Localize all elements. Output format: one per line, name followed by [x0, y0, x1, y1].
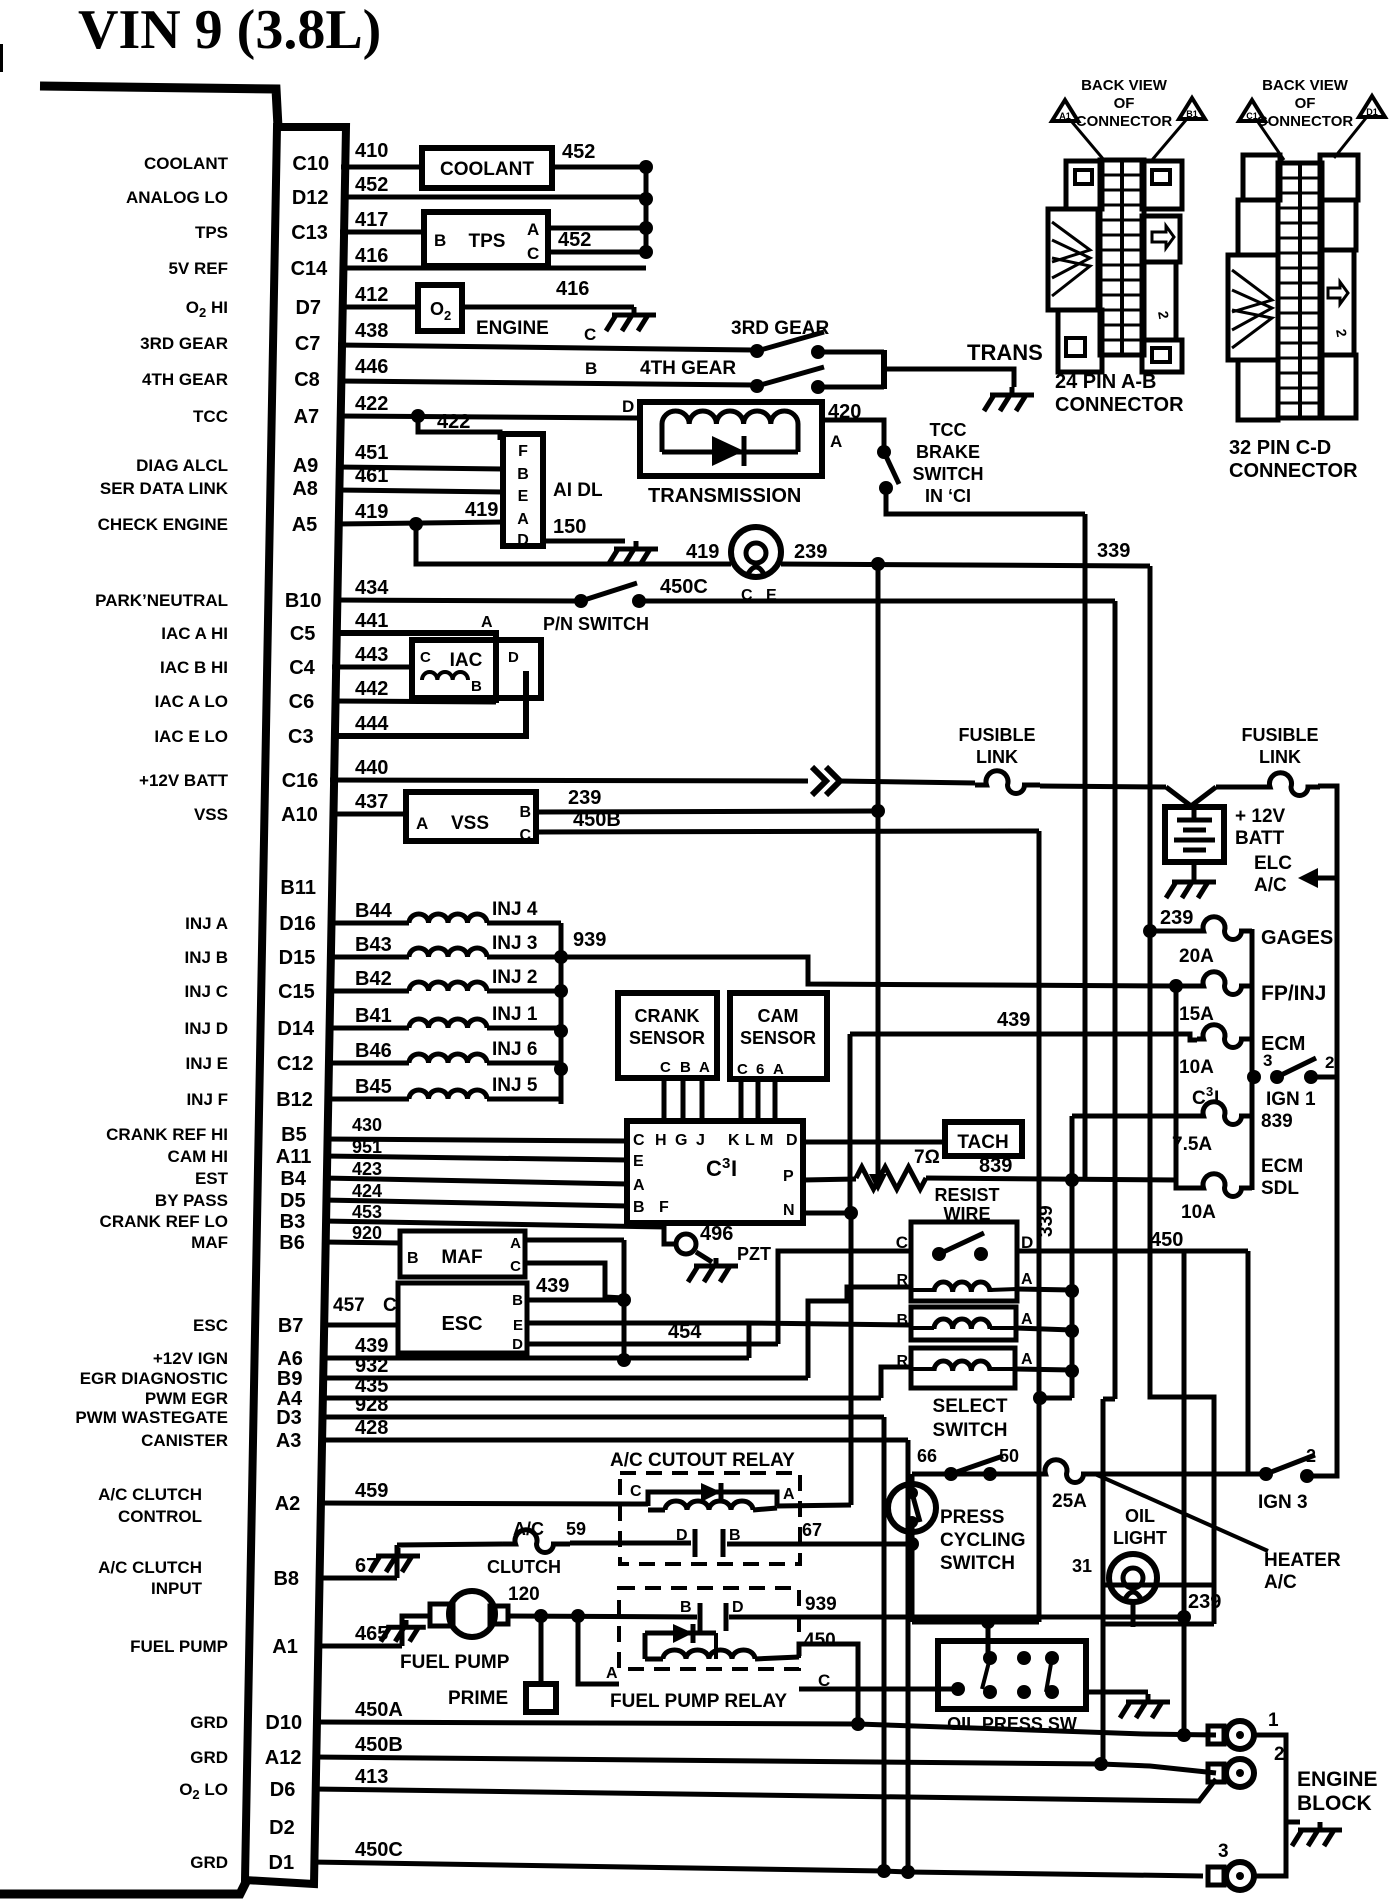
svg-text:450B: 450B: [355, 1734, 403, 1756]
svg-text:BLOCK: BLOCK: [1297, 1792, 1372, 1815]
svg-text:P/N SWITCH: P/N SWITCH: [543, 614, 649, 634]
svg-text:3: 3: [1263, 1051, 1272, 1070]
svg-text:50: 50: [999, 1446, 1019, 1466]
svg-text:339: 339: [1097, 540, 1130, 562]
svg-text:451: 451: [355, 442, 388, 464]
stray mark left edge: [0, 44, 3, 72]
svg-text:C10: C10: [292, 153, 329, 175]
relay3 coil box: [911, 1348, 1015, 1388]
svg-text:439: 439: [355, 1335, 388, 1357]
svg-text:BACK VIEW: BACK VIEW: [1262, 77, 1349, 94]
svg-text:416: 416: [355, 245, 388, 267]
svg-text:31: 31: [1072, 1556, 1092, 1576]
svg-text:B44: B44: [355, 900, 393, 922]
svg-text:D6: D6: [270, 1779, 296, 1801]
svg-text:428: 428: [355, 1417, 388, 1439]
injector coil INJ 6: [325, 1061, 409, 1066]
svg-text:TCC: TCC: [930, 420, 967, 440]
svg-text:BATT: BATT: [1235, 828, 1285, 849]
svg-text:B12: B12: [276, 1089, 313, 1111]
svg-text:454: 454: [668, 1321, 702, 1343]
wire 31 vertical: [1101, 1399, 1106, 1766]
svg-text:D: D: [732, 1599, 744, 1616]
node 120 prime: [534, 1609, 548, 1623]
node 67 press switch: [905, 1537, 919, 1551]
svg-text:B: B: [512, 1292, 523, 1309]
svg-text:D14: D14: [277, 1018, 315, 1040]
svg-text:10A: 10A: [1181, 1202, 1216, 1223]
wire B3 453 to F: [323, 1221, 664, 1227]
AC cutout relay dashed box: [620, 1473, 800, 1564]
wire oil light to 450 riser: [1103, 1622, 1214, 1627]
ground TRANS: [1010, 387, 1015, 395]
wire select riser: [910, 1474, 915, 1493]
wire 928 down: [882, 1417, 887, 1872]
wire bulb 239: [781, 564, 1150, 566]
relay contact C-D: [932, 1247, 946, 1261]
wire C14 416: [340, 266, 646, 271]
wire FP relay C to oil sw: [799, 1687, 958, 1692]
svg-text:R: R: [896, 1272, 908, 1289]
svg-text:CONNECTOR: CONNECTOR: [1257, 113, 1354, 130]
wire 450 riser: [1182, 1251, 1187, 1735]
wire select feed: [1040, 1396, 1072, 1401]
svg-text:66: 66: [917, 1446, 937, 1466]
svg-text:E: E: [633, 1153, 644, 1170]
C3I box: [627, 1121, 803, 1223]
svg-text:B: B: [407, 1250, 419, 1267]
ground ENGINE BLOCK: [1318, 1822, 1323, 1830]
node 939 riser bottom: [1177, 1610, 1191, 1624]
FP relay coil: [663, 1650, 755, 1659]
svg-text:B3: B3: [280, 1211, 306, 1233]
fuse bus vertical: [1250, 929, 1255, 1190]
engine block bracket: [1254, 1735, 1286, 1876]
knock sensor PZT: [664, 1227, 674, 1244]
wire D1 450C: [311, 1862, 1203, 1876]
svg-text:GRD: GRD: [190, 1748, 228, 1767]
svg-text:K: K: [728, 1132, 740, 1149]
svg-text:D1: D1: [269, 1852, 295, 1874]
svg-text:PWM WASTEGATE: PWM WASTEGATE: [75, 1408, 228, 1427]
svg-text:PWM EGR: PWM EGR: [145, 1389, 228, 1408]
svg-text:A: A: [481, 614, 493, 631]
fuse 20A GAGES: [1150, 929, 1197, 934]
svg-text:LINK: LINK: [1259, 747, 1301, 767]
wire 419 down to bulb: [416, 524, 731, 564]
connector 24-pin fan wires: [1052, 222, 1090, 262]
node 452-D12: [639, 192, 653, 206]
wire C8 446: [338, 381, 753, 385]
svg-text:ANALOG LO: ANALOG LO: [126, 188, 228, 207]
ECM outer bottom line: [0, 1880, 247, 1894]
wire MAF C: [525, 1263, 624, 1298]
svg-text:LINK: LINK: [976, 747, 1018, 767]
wire to TRANS ground: [884, 369, 1014, 387]
battery ground: [1192, 862, 1197, 874]
svg-text:B1: B1: [1186, 109, 1198, 119]
svg-text:430: 430: [352, 1115, 382, 1135]
svg-text:COOLANT: COOLANT: [440, 159, 534, 180]
svg-text:15A: 15A: [1179, 1004, 1214, 1025]
wire 439 to ECM fuse: [850, 1034, 1197, 1040]
svg-text:3: 3: [1218, 1841, 1229, 1862]
svg-text:C: C: [584, 325, 596, 344]
svg-text:B: B: [471, 678, 482, 695]
svg-text:IAC B HI: IAC B HI: [160, 658, 228, 677]
svg-text:B46: B46: [355, 1040, 392, 1062]
wire IGN3 right: [1307, 1077, 1337, 1476]
svg-text:TPS: TPS: [195, 223, 228, 242]
svg-text:CRANK: CRANK: [635, 1006, 700, 1026]
AC relay coil: [665, 1501, 753, 1510]
svg-text:2: 2: [1325, 1053, 1334, 1072]
ground oil press: [1146, 1694, 1151, 1702]
svg-text:3RD GEAR: 3RD GEAR: [140, 334, 228, 353]
TPS box: [424, 212, 548, 266]
svg-text:59: 59: [566, 1519, 586, 1539]
ground PZT: [696, 1252, 712, 1262]
wire oil light 31: [1103, 1583, 1214, 1588]
svg-text:B7: B7: [278, 1315, 304, 1337]
svg-text:C3: C3: [288, 726, 314, 748]
IAC box: [412, 640, 541, 698]
svg-text:A3: A3: [276, 1430, 302, 1452]
wire 939 riser: [1174, 986, 1179, 1181]
wire C5 441 to IAC A: [333, 633, 496, 703]
svg-text:INJ 3: INJ 3: [492, 933, 537, 954]
svg-text:BACK VIEW: BACK VIEW: [1081, 77, 1168, 94]
transmission diode line: [660, 424, 665, 452]
wire C13 417: [340, 230, 424, 235]
svg-text:SWITCH: SWITCH: [913, 464, 984, 484]
svg-text:+12V BATT: +12V BATT: [139, 771, 229, 790]
svg-text:C: C: [630, 1483, 642, 1500]
fuel pump relay dashed box: [619, 1588, 799, 1669]
svg-text:32 PIN C-D: 32 PIN C-D: [1229, 437, 1331, 459]
svg-text:437: 437: [355, 791, 388, 813]
node 120 relay A: [571, 1609, 585, 1623]
node injector bus: [554, 950, 568, 964]
svg-text:EST: EST: [195, 1169, 229, 1188]
terminal 2: [1208, 1764, 1224, 1782]
ECM pin column box: [245, 127, 346, 1884]
svg-text:SDL: SDL: [1261, 1178, 1299, 1199]
svg-text:450B: 450B: [573, 809, 621, 831]
svg-text:B: B: [680, 1599, 692, 1616]
wire relay2 A: [1016, 1328, 1072, 1330]
svg-text:+12V IGN: +12V IGN: [153, 1349, 228, 1368]
svg-text:439: 439: [997, 1009, 1030, 1031]
svg-text:RESIST: RESIST: [934, 1185, 999, 1205]
svg-text:INJ B: INJ B: [185, 948, 228, 967]
svg-text:A: A: [773, 1061, 784, 1078]
svg-text:H: H: [655, 1132, 667, 1149]
svg-text:457: 457: [333, 1295, 365, 1316]
node 31 bottom: [1094, 1757, 1108, 1771]
svg-text:IGN 1: IGN 1: [1266, 1089, 1316, 1110]
svg-text:412: 412: [355, 284, 388, 306]
svg-text:1: 1: [1268, 1710, 1279, 1731]
wire 3rd to bracket: [822, 350, 884, 355]
wire B6 920: [322, 1242, 400, 1243]
arrow ELC feed: [1312, 876, 1337, 881]
FP relay diode: [645, 1631, 716, 1636]
svg-text:496: 496: [700, 1223, 733, 1245]
wire D6 413: [313, 1779, 1216, 1801]
svg-text:J: J: [696, 1132, 705, 1149]
svg-text:C6: C6: [289, 691, 315, 713]
svg-text:O2 LO: O2 LO: [179, 1780, 228, 1802]
svg-text:LIGHT: LIGHT: [1113, 1528, 1167, 1548]
svg-text:B9: B9: [277, 1368, 303, 1390]
svg-text:GAGES: GAGES: [1261, 927, 1333, 949]
svg-text:ESC: ESC: [441, 1313, 482, 1335]
svg-text:ENGINE: ENGINE: [476, 318, 549, 339]
fuse 25A: [1038, 1460, 1095, 1483]
pointer HEATER A/C: [1095, 1474, 1268, 1551]
svg-text:444: 444: [355, 713, 389, 735]
wire 120: [508, 1616, 697, 1617]
wire A5 419 to AIDL A: [335, 522, 503, 524]
wire IGN1 to right bus: [1311, 1075, 1337, 1080]
svg-text:438: 438: [355, 320, 388, 342]
svg-text:419: 419: [465, 499, 498, 521]
wire select switch row: [912, 1472, 1038, 1477]
switch IGN1: [1247, 1070, 1261, 1084]
svg-text:PARK’NEUTRAL: PARK’NEUTRAL: [95, 591, 228, 610]
svg-text:B: B: [729, 1527, 741, 1544]
fusible link left: [975, 771, 1040, 794]
svg-text:ELC: ELC: [1254, 853, 1292, 874]
switch select 66-50: [944, 1467, 958, 1481]
wire D7 412: [339, 305, 418, 310]
gear bracket vertical: [881, 350, 887, 389]
svg-text:2: 2: [444, 308, 451, 323]
svg-text:A5: A5: [292, 514, 318, 536]
wire C3I D to TACH: [803, 1140, 945, 1145]
svg-text:A1: A1: [1059, 111, 1071, 121]
svg-text:C16: C16: [282, 770, 319, 792]
svg-text:A6: A6: [277, 1348, 303, 1370]
svg-text:B41: B41: [355, 1005, 392, 1027]
svg-text:IAC: IAC: [450, 650, 483, 671]
node 839-339: [1065, 1173, 1079, 1187]
svg-text:C13: C13: [291, 222, 328, 244]
svg-text:D: D: [508, 649, 519, 666]
node 452 junction: [639, 160, 653, 174]
injector bus vertical: [559, 923, 564, 1104]
svg-text:D: D: [622, 397, 634, 416]
svg-text:IAC A LO: IAC A LO: [155, 692, 228, 711]
svg-text:150: 150: [553, 516, 586, 538]
node 450 riser bottom: [1177, 1728, 1191, 1742]
svg-text:D10: D10: [265, 1712, 302, 1734]
svg-text:CRANK REF LO: CRANK REF LO: [100, 1212, 228, 1231]
svg-text:OF: OF: [1114, 95, 1135, 112]
svg-text:A/C CLUTCH: A/C CLUTCH: [98, 1485, 202, 1504]
svg-text:439: 439: [536, 1275, 569, 1297]
fuse AC 59: [397, 1544, 503, 1545]
svg-text:459: 459: [355, 1480, 388, 1502]
svg-text:120: 120: [508, 1584, 540, 1605]
wire ESC E: [527, 1321, 749, 1326]
fuse 15A FP/INJ: [1176, 984, 1197, 989]
svg-text:B11: B11: [280, 877, 316, 899]
svg-text:TRANS: TRANS: [967, 340, 1043, 365]
svg-text:C: C: [660, 1059, 671, 1076]
svg-text:A12: A12: [265, 1747, 302, 1769]
wire ESC B: [527, 1298, 624, 1303]
ECM outer top line: [40, 86, 278, 127]
triangle B1: [1179, 98, 1205, 119]
svg-text:339: 339: [1036, 1205, 1057, 1237]
oil press switch pins: [951, 1682, 965, 1696]
relay TCC contact+coil box: [911, 1222, 1017, 1301]
svg-text:10A: 10A: [1179, 1057, 1214, 1078]
svg-text:A2: A2: [275, 1493, 301, 1515]
svg-text:D: D: [512, 1336, 523, 1353]
node 428 gnd: [901, 1865, 915, 1879]
svg-text:B6: B6: [279, 1232, 305, 1254]
svg-text:239: 239: [1188, 1591, 1221, 1613]
svg-text:A: A: [517, 511, 529, 528]
node 422 branch: [411, 409, 425, 423]
wire 339 vertical: [1070, 1116, 1075, 1398]
svg-text:IGN 3: IGN 3: [1258, 1492, 1308, 1513]
svg-text:B: B: [585, 359, 597, 378]
wire 465 riser: [402, 1616, 430, 1646]
svg-text:939: 939: [573, 929, 606, 951]
wire 454 staircase: [778, 1251, 911, 1344]
svg-text:D3: D3: [276, 1407, 302, 1429]
svg-text:B4: B4: [280, 1168, 306, 1190]
wire C7 438: [338, 345, 753, 350]
svg-text:I: I: [731, 1156, 737, 1181]
svg-text:D12: D12: [292, 187, 329, 209]
svg-text:443: 443: [355, 644, 388, 666]
svg-text:D7: D7: [295, 297, 321, 319]
svg-text:FUEL PUMP: FUEL PUMP: [130, 1637, 228, 1656]
svg-text:VIN 9 (3.8L): VIN 9 (3.8L): [78, 0, 381, 61]
svg-text:20A: 20A: [1179, 946, 1214, 967]
VSS box: [406, 792, 536, 841]
node 928 gnd: [877, 1864, 891, 1878]
wire A9 451: [336, 467, 503, 469]
svg-text:CLUTCH: CLUTCH: [487, 1557, 561, 1577]
svg-text:424: 424: [352, 1181, 382, 1201]
svg-text:A: A: [699, 1059, 710, 1076]
svg-text:TRANSMISSION: TRANSMISSION: [648, 485, 801, 507]
wire D12 452: [341, 195, 646, 200]
svg-text:939: 939: [805, 1594, 837, 1615]
wire 450A: [314, 1722, 1216, 1735]
svg-text:SENSOR: SENSOR: [740, 1028, 816, 1048]
svg-text:C14: C14: [291, 258, 329, 280]
svg-text:ECM: ECM: [1261, 1156, 1303, 1177]
oil press switch box: [938, 1641, 1086, 1709]
wire 239 down to VSS: [876, 564, 881, 810]
svg-text:D: D: [786, 1132, 798, 1149]
svg-text:C: C: [519, 827, 531, 844]
injector coil INJ 5: [325, 1097, 409, 1102]
transmission box: [640, 402, 822, 476]
wire brake sw to vertical: [886, 488, 1085, 514]
triangle C1: [1239, 100, 1265, 121]
svg-text:A: A: [830, 432, 842, 451]
wire N to AC relay A: [849, 1213, 854, 1505]
svg-text:IAC A HI: IAC A HI: [161, 624, 228, 643]
wire link to right bus: [1318, 786, 1337, 1077]
svg-text:L: L: [745, 1132, 755, 1149]
svg-text:B10: B10: [285, 590, 322, 612]
wire C6 442: [332, 701, 496, 702]
node 239 fuse feed: [1143, 924, 1157, 938]
svg-text:E: E: [518, 488, 529, 505]
wire relay1 A: [1017, 1289, 1072, 1290]
wire 439 riser: [848, 1034, 853, 1213]
wire 450C: [645, 599, 1115, 604]
wire 440 cont: [838, 781, 975, 783]
switch TCC brake: [877, 445, 891, 459]
svg-text:+ 12V: + 12V: [1235, 806, 1286, 827]
bulb OIL LIGHT: [1109, 1554, 1157, 1602]
wire 932 staircase: [808, 1287, 911, 1378]
svg-text:D1: D1: [1366, 107, 1378, 117]
svg-text:CONNECTOR: CONNECTOR: [1229, 460, 1358, 482]
wire B7 457: [321, 1323, 398, 1328]
svg-text:I: I: [1214, 1088, 1219, 1109]
wire A6 439: [320, 1356, 749, 1361]
svg-text:B42: B42: [355, 968, 392, 990]
wire VSS C 450B: [536, 831, 1039, 832]
wire B5 430: [324, 1139, 627, 1141]
wire O2 to engine ground: [462, 305, 634, 310]
svg-text:D: D: [517, 532, 529, 549]
wire 435 staircase: [881, 1367, 911, 1398]
svg-text:450: 450: [1150, 1229, 1183, 1251]
svg-text:839: 839: [1261, 1111, 1293, 1132]
terminal 1: [1208, 1726, 1224, 1744]
svg-text:INJ 5: INJ 5: [492, 1075, 538, 1096]
svg-text:450: 450: [804, 1630, 836, 1651]
svg-text:M: M: [760, 1132, 773, 1149]
svg-text:G: G: [675, 1132, 687, 1149]
wire A10 437: [330, 812, 406, 817]
svg-text:A: A: [527, 220, 539, 239]
wire A2 459: [318, 1503, 648, 1504]
crank sensor stubs: [662, 1078, 667, 1121]
svg-text:SER DATA LINK: SER DATA LINK: [100, 479, 229, 498]
svg-text:C8: C8: [294, 369, 320, 391]
connector 24-pin arrow: [1152, 226, 1174, 248]
svg-text:INJ 2: INJ 2: [492, 967, 537, 988]
wire 422 to AIDL F: [418, 416, 500, 440]
svg-text:C15: C15: [278, 981, 315, 1003]
svg-text:CHECK ENGINE: CHECK ENGINE: [98, 515, 228, 534]
FP relay contacts B D: [698, 1603, 703, 1631]
svg-text:INJ C: INJ C: [185, 982, 228, 1001]
svg-text:F: F: [659, 1199, 669, 1216]
svg-text:A/C: A/C: [1254, 875, 1287, 896]
svg-text:422: 422: [437, 411, 470, 433]
svg-text:452: 452: [558, 229, 591, 251]
switch P/N: [574, 594, 588, 608]
bulb CHECK ENGINE: [731, 527, 781, 577]
svg-text:450A: 450A: [355, 1699, 403, 1721]
svg-text:OF: OF: [1295, 95, 1316, 112]
svg-text:419: 419: [686, 541, 719, 563]
